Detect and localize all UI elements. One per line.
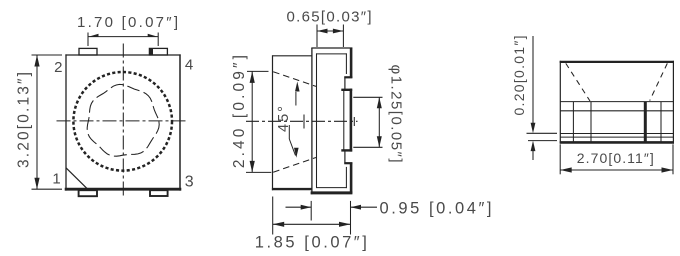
svg-text:3.20[0.13″]: 3.20[0.13″] bbox=[16, 72, 33, 168]
dimension 0.65: dimension line with arrows bbox=[317, 30, 343, 32]
dimension 2.40: dimension line with arrows bbox=[251, 71, 253, 172]
middle view: upper notch step (thick) bbox=[344, 76, 352, 78]
dimension 0.20: extension lines bbox=[527, 132, 558, 134]
right view: body top edge (thick) bbox=[560, 61, 674, 63]
right view: dashed reflector cone left bbox=[566, 63, 590, 101]
middle view: 45 deg lower leader with arrow bbox=[288, 125, 290, 139]
dimension 0.20: lower leader line and up arrow bbox=[532, 151, 534, 161]
middle view: body top edge bbox=[311, 47, 352, 49]
svg-text:2: 2 bbox=[54, 59, 62, 76]
middle view: inner wall bottom bbox=[316, 187, 347, 189]
right view: dashed reflector cone right bbox=[650, 63, 668, 100]
middle view: flange bottom edge (thick) bbox=[272, 188, 312, 190]
middle view: lens pin face (thick) bbox=[350, 89, 353, 152]
dimension 1.85: dimension line with arrows bbox=[273, 223, 351, 225]
dimension 1.70: dimension line with half-flag arrows bbox=[88, 36, 158, 38]
middle view: lens pin base line bbox=[343, 90, 345, 150]
dimension 2.70: dimension line with arrows bbox=[560, 169, 673, 171]
dimension 3.20: dimension line with arrows bbox=[36, 55, 38, 189]
middle view: lens center tick bbox=[303, 115, 305, 129]
svg-text:0.65[0.03″]: 0.65[0.03″] bbox=[287, 9, 372, 26]
svg-text:1: 1 bbox=[52, 171, 60, 188]
right view: right lead vertical bbox=[660, 102, 662, 142]
left view: vertical centerline bbox=[122, 44, 124, 198]
middle view: body right edge upper (thick) bbox=[350, 48, 353, 79]
dimension 0.20: upper leader line and down arrow bbox=[532, 36, 534, 124]
right view: internal horizontal line 2 bbox=[560, 110, 673, 112]
middle view: upper notch vertical bbox=[344, 77, 346, 90]
svg-text:φ1.25[0.05″]: φ1.25[0.05″] bbox=[388, 65, 405, 163]
middle view: lens pin bottom edge (thick) bbox=[341, 149, 352, 151]
svg-text:4: 4 bbox=[185, 57, 193, 74]
middle view: inner wall top bbox=[316, 53, 347, 55]
dimension 0.65: extension lines bbox=[316, 25, 318, 48]
dimension 0.95: outside arrows and leaders bbox=[286, 206, 312, 208]
right view: right lead thick vertical (cathode) bbox=[644, 102, 647, 142]
dimension 1.85 [0.07"]: extension line bbox=[272, 197, 274, 235]
svg-text:0.20[0.01″]: 0.20[0.01″] bbox=[511, 36, 527, 116]
right view: body left edge bbox=[559, 61, 561, 144]
dimension 2.40: extension lines bbox=[247, 70, 269, 72]
left view: bottom-left terminal tab bbox=[79, 190, 97, 196]
middle view: lower notch vertical bbox=[344, 151, 346, 164]
left view: inner lens circle (thin dashed) bbox=[87, 84, 159, 156]
middle view: inner wall right upper bbox=[345, 53, 347, 74]
dimension phi1.25: dimension line with arrows bbox=[378, 97, 380, 147]
right view: left lead vertical 2 bbox=[590, 102, 592, 142]
dimension 1.70: extension lines bbox=[87, 33, 89, 47]
middle view: center cross tick at pin bbox=[353, 117, 355, 126]
middle view: 45 deg upper leader with arrow bbox=[295, 92, 297, 106]
middle view: body outer left edge bbox=[311, 48, 313, 194]
left view: bottom-right terminal tab bbox=[150, 190, 168, 196]
middle view: lens pin top edge (thick) bbox=[341, 89, 352, 91]
middle view: dashed cone lower line bbox=[273, 158, 316, 173]
left view: top-right terminal tab with cathode fill mark bbox=[149, 48, 167, 55]
dimension phi1.25: extension lines bbox=[353, 96, 382, 98]
middle view: body right edge lower (thick) bbox=[350, 163, 353, 194]
middle view: lower notch step (thick) bbox=[344, 162, 352, 164]
middle view: body bottom edge (thick) bbox=[311, 191, 353, 194]
left view: outer lens circle (thick dashed) bbox=[73, 72, 172, 171]
right view: body bottom edge (thick) bbox=[560, 141, 674, 144]
right view: internal horizontal line 4 (lead bottom) bbox=[560, 136, 673, 138]
svg-text:2.70[0.11″]: 2.70[0.11″] bbox=[577, 150, 654, 166]
svg-text:3: 3 bbox=[185, 174, 194, 191]
left view: LED package top-view body outline bbox=[65, 54, 67, 190]
middle view: inner wall right lower bbox=[345, 167, 347, 188]
middle view: horizontal centerline bbox=[246, 120, 358, 122]
dimension 3.20: extension lines bbox=[32, 54, 63, 56]
dimension 2.70[0.11"]: extension lines bbox=[559, 144, 561, 174]
right view: left lead vertical 1 bbox=[572, 102, 574, 142]
left view: horizontal centerline bbox=[57, 120, 188, 122]
middle view: flange left edge bbox=[272, 55, 274, 190]
middle view: inner wall left vertical bbox=[316, 53, 318, 187]
left view: polarity chamfer corner bbox=[66, 168, 88, 189]
dimension 0.95 [0.04"]: extension lines bbox=[310, 201, 312, 221]
right view: internal horizontal line 1 bbox=[560, 101, 673, 103]
right view: internal horizontal line 3 (lead top) bbox=[560, 133, 673, 135]
left view: top-left terminal tab bbox=[79, 48, 97, 55]
right view: body right edge bbox=[672, 61, 674, 144]
middle view: flange top edge bbox=[273, 55, 312, 57]
middle view: dashed cone upper line bbox=[273, 72, 316, 87]
